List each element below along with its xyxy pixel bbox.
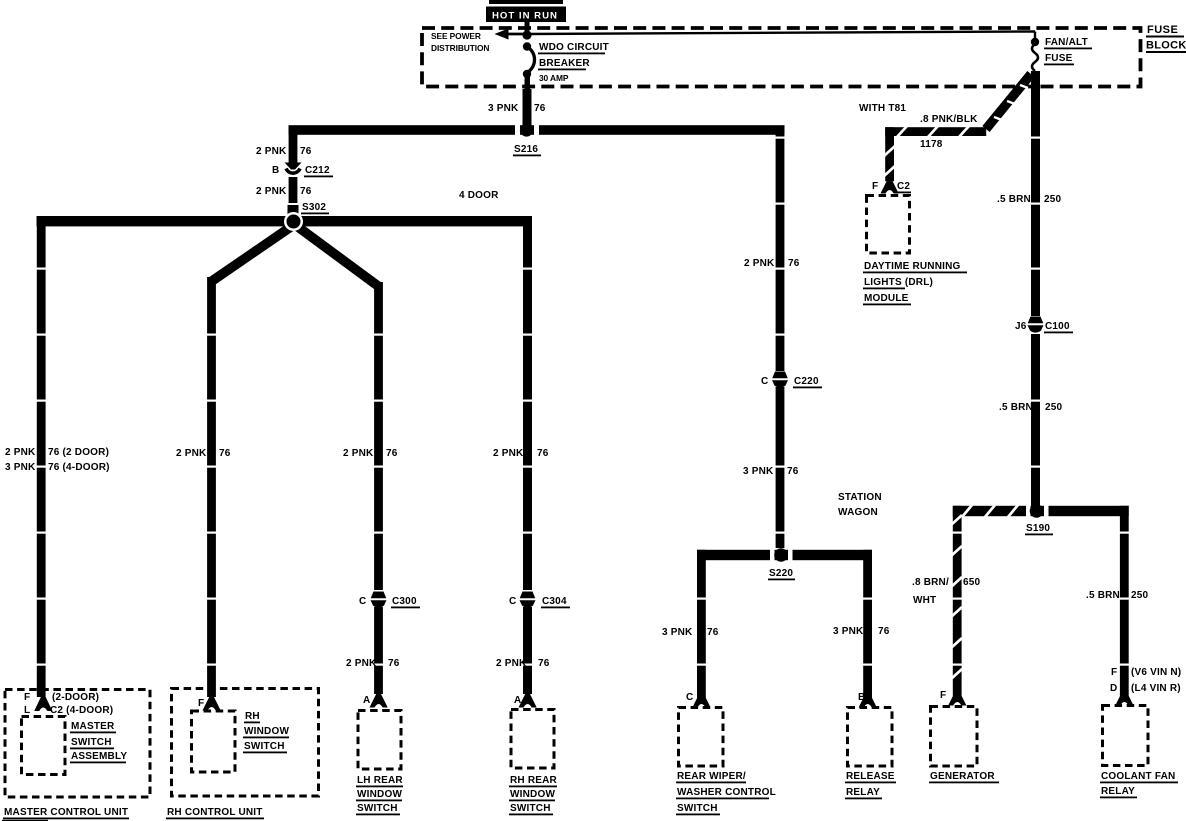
svg-text:.5 BRN: .5 BRN [1086, 590, 1120, 601]
wire vertical to rear wiper switch [697, 550, 706, 698]
svg-text:250: 250 [1131, 590, 1149, 601]
svg-text:REAR WIPER/: REAR WIPER/ [677, 771, 746, 782]
wire from breaker down through fuse block edge [525, 77, 531, 89]
wire from bus down to C212 [289, 133, 298, 164]
wire hatched vertical to DRL connector [885, 127, 894, 181]
svg-text:3 PNK: 3 PNK [488, 103, 519, 114]
svg-text:ASSEMBLY: ASSEMBLY [71, 751, 127, 762]
svg-text:2 PNK: 2 PNK [343, 448, 374, 459]
svg-text:WASHER CONTROL: WASHER CONTROL [677, 787, 776, 798]
svg-text:F: F [198, 698, 204, 709]
wire stub from HOT IN RUN into fuse block [525, 22, 530, 34]
svg-text:C212: C212 [305, 165, 330, 176]
svg-text:MASTER CONTROL UNIT: MASTER CONTROL UNIT [4, 807, 128, 818]
svg-text:C220: C220 [794, 376, 819, 387]
svg-text:J6: J6 [1015, 321, 1027, 332]
pin connector into coolant fan relay [1115, 692, 1133, 706]
svg-text:76 (2 DOOR): 76 (2 DOOR) [48, 447, 109, 458]
wire vertical drop w1 (to master switch) [37, 216, 46, 697]
svg-text:LH REAR: LH REAR [357, 775, 403, 786]
RH REAR WINDOW SWITCH dashed box [511, 710, 554, 769]
wire thick from FAN/ALT fuse down to S190 [1031, 71, 1040, 316]
svg-text:WINDOW: WINDOW [510, 789, 555, 800]
connector C300 symbol on w3 [371, 592, 387, 599]
svg-text:SWITCH: SWITCH [71, 737, 112, 748]
svg-text:2 PNK: 2 PNK [5, 447, 36, 458]
svg-text:2 PNK: 2 PNK [493, 448, 524, 459]
connector C304 symbol on w4 [520, 592, 536, 599]
svg-text:2 PNK: 2 PNK [256, 146, 287, 157]
svg-text:C300: C300 [392, 596, 417, 607]
wire vertical .5 BRN to coolant fan relay [1120, 506, 1129, 696]
RH WINDOW SWITCH inner dashed box [192, 711, 236, 772]
RH CONTROL UNIT outer dashed box [172, 689, 319, 797]
svg-text:76: 76 [386, 448, 398, 459]
svg-text:3 PNK: 3 PNK [5, 462, 36, 473]
svg-text:RELEASE: RELEASE [846, 771, 895, 782]
svg-text:A: A [514, 695, 521, 706]
splice S216 [520, 123, 533, 136]
svg-text:GENERATOR: GENERATOR [930, 771, 995, 782]
svg-text:WINDOW: WINDOW [357, 789, 402, 800]
svg-text:2 PNK: 2 PNK [496, 658, 527, 669]
svg-text:SWITCH: SWITCH [357, 803, 398, 814]
circuit breaker CB (WDO) [522, 30, 531, 39]
svg-text:BLOCK: BLOCK [1146, 40, 1186, 52]
svg-text:76 (4-DOOR): 76 (4-DOOR) [48, 462, 110, 473]
svg-text:76: 76 [534, 103, 546, 114]
wire C212 to S302 [289, 177, 298, 203]
svg-text:1178: 1178 [920, 139, 943, 150]
gaps around S190 [1026, 505, 1031, 517]
S302 hub horizontal wire [37, 216, 533, 226]
svg-text:RELAY: RELAY [1101, 786, 1135, 797]
svg-text:SEE POWER: SEE POWER [431, 31, 481, 41]
wire hatched horizontal to DRL [885, 127, 986, 136]
svg-text:FAN/ALT: FAN/ALT [1045, 37, 1088, 48]
MASTER SWITCH ASSEMBLY inner dashed box [22, 717, 66, 775]
GENERATOR dashed box [931, 707, 978, 767]
svg-text:C: C [761, 376, 768, 387]
svg-text:250: 250 [1044, 194, 1062, 205]
svg-text:2 PNK: 2 PNK [176, 448, 207, 459]
svg-text:RH: RH [245, 711, 260, 722]
wire hatched vertical .8 BRN/WHT to generator [953, 506, 962, 696]
svg-text:4 DOOR: 4 DOOR [459, 190, 499, 201]
wire vertical to release relay [863, 550, 872, 698]
connector C220 symbol [772, 372, 788, 379]
svg-text:A: A [363, 695, 370, 706]
COOLANT FAN RELAY dashed box [1103, 706, 1149, 766]
svg-text:(V6 VIN N): (V6 VIN N) [1131, 667, 1181, 678]
DRL MODULE dashed box [867, 196, 910, 254]
wire diagonal S302 to w2 [212, 224, 295, 281]
RELEASE RELAY dashed box [848, 708, 893, 767]
svg-text:76: 76 [537, 448, 549, 459]
wire 3 PNK 76 to bus [523, 89, 532, 126]
svg-text:WITH T81: WITH T81 [859, 103, 906, 114]
wire hatched diagonal .8 PNK/BLK [986, 74, 1031, 129]
pin connector into RH rear window switch [519, 694, 537, 708]
svg-text:F: F [940, 690, 946, 701]
pin connector into RH window switch [203, 697, 221, 711]
svg-text:C: C [509, 596, 516, 607]
svg-text:STATION: STATION [838, 492, 882, 503]
splice S302 isolation ring and dot [284, 212, 303, 231]
svg-text:FUSE: FUSE [1147, 24, 1178, 36]
HOT IN RUN box [486, 7, 566, 23]
svg-text:3 PNK: 3 PNK [833, 626, 864, 637]
svg-text:F: F [1111, 667, 1117, 678]
svg-text:WDO CIRCUIT: WDO CIRCUIT [539, 42, 609, 53]
black bar above HOT IN RUN (cut off) [489, 0, 563, 4]
gaps around S216 [515, 124, 520, 136]
pin connector into generator [948, 692, 966, 706]
svg-text:.8 BRN/: .8 BRN/ [912, 577, 949, 588]
svg-text:C304: C304 [542, 596, 567, 607]
svg-text:L: L [24, 705, 30, 716]
connector C212 symbol [285, 163, 302, 170]
svg-text:76: 76 [878, 626, 890, 637]
svg-text:FUSE: FUSE [1045, 53, 1073, 64]
svg-text:B: B [272, 165, 279, 176]
svg-text:.5 BRN: .5 BRN [997, 194, 1031, 205]
svg-text:(L4 VIN R): (L4 VIN R) [1131, 683, 1181, 694]
pin connector into LH rear window switch [370, 694, 388, 708]
svg-text:76: 76 [787, 466, 799, 477]
svg-text:650: 650 [963, 577, 981, 588]
S220 hub horizontal wire [697, 550, 872, 560]
svg-text:(2-DOOR): (2-DOOR) [52, 692, 99, 703]
svg-text:C2: C2 [897, 181, 910, 192]
svg-text:S216: S216 [514, 144, 538, 155]
svg-text:30 AMP: 30 AMP [539, 73, 569, 83]
svg-text:76: 76 [538, 658, 550, 669]
splice S220 [774, 548, 788, 562]
svg-text:DAYTIME RUNNING: DAYTIME RUNNING [864, 261, 961, 272]
svg-text:B: B [858, 692, 865, 703]
svg-text:.5 BRN: .5 BRN [999, 402, 1033, 413]
svg-text:76: 76 [300, 146, 312, 157]
LH REAR WINDOW SWITCH dashed box [358, 711, 401, 770]
wire thin line to FAN/ALT fuse [527, 32, 1035, 35]
splice S190 hub [953, 506, 1032, 516]
svg-text:S190: S190 [1026, 523, 1050, 534]
bus wire horizontal S216 bus [289, 125, 785, 135]
svg-text:MASTER: MASTER [71, 721, 115, 732]
see-power arrow [495, 29, 509, 40]
svg-text:3 PNK: 3 PNK [662, 627, 693, 638]
svg-text:C100: C100 [1045, 321, 1070, 332]
wire right drop from bus to C220 [776, 130, 785, 371]
svg-text:C: C [686, 692, 693, 703]
svg-text:SWITCH: SWITCH [244, 741, 285, 752]
svg-text:2 PNK: 2 PNK [744, 258, 775, 269]
svg-text:RH CONTROL UNIT: RH CONTROL UNIT [167, 807, 263, 818]
connector F/C2 into DRL module [881, 180, 899, 194]
wire C220 to S220 [776, 387, 785, 548]
svg-text:250: 250 [1045, 402, 1063, 413]
svg-text:RH REAR: RH REAR [510, 775, 558, 786]
FAN/ALT fuse symbol [1031, 38, 1039, 46]
svg-text:S220: S220 [769, 568, 793, 579]
wire diagonal S302 to w3 [294, 224, 378, 286]
svg-text:D: D [1110, 683, 1117, 694]
svg-text:76: 76 [707, 627, 719, 638]
pin connector into release relay [859, 694, 877, 708]
svg-text:76: 76 [788, 258, 800, 269]
gaps around S220 [770, 549, 775, 561]
svg-text:HOT IN RUN: HOT IN RUN [492, 11, 558, 22]
svg-text:WHT: WHT [913, 595, 936, 606]
svg-text:2 PNK: 2 PNK [346, 658, 377, 669]
pin connector into rear wiper switch [692, 694, 710, 708]
svg-text:76: 76 [219, 448, 231, 459]
svg-text:S302: S302 [302, 202, 326, 213]
MASTER CONTROL UNIT outer dashed box [5, 690, 150, 798]
svg-text:F: F [24, 692, 30, 703]
svg-text:MODULE: MODULE [864, 293, 909, 304]
svg-text:SWITCH: SWITCH [510, 803, 551, 814]
REAR WIPER WASHER SWITCH dashed box [679, 708, 724, 767]
svg-text:2 PNK: 2 PNK [256, 186, 287, 197]
wire vertical drop w4 (to RH rear window switch) [523, 216, 532, 590]
wire vertical w2 (to RH window switch) [207, 277, 216, 697]
svg-text:C2 (4-DOOR): C2 (4-DOOR) [50, 705, 113, 716]
wire vertical w3 (to LH rear window switch) [374, 282, 383, 590]
svg-text:RELAY: RELAY [846, 787, 880, 798]
svg-text:LIGHTS (DRL): LIGHTS (DRL) [864, 277, 933, 288]
svg-text:WINDOW: WINDOW [244, 726, 289, 737]
fuse block dashed box [422, 28, 1141, 87]
svg-text:DISTRIBUTION: DISTRIBUTION [431, 43, 489, 53]
svg-text:COOLANT FAN: COOLANT FAN [1101, 771, 1175, 782]
svg-text:WAGON: WAGON [838, 507, 878, 518]
svg-text:BREAKER: BREAKER [539, 58, 590, 69]
pin connector into master switch [34, 697, 52, 711]
scan band gaps on wires [36, 137, 1130, 666]
svg-text:76: 76 [300, 186, 312, 197]
svg-text:F: F [872, 181, 878, 192]
svg-text:.8 PNK/BLK: .8 PNK/BLK [920, 114, 978, 125]
svg-text:SWITCH: SWITCH [677, 803, 718, 814]
svg-text:C: C [359, 596, 366, 607]
svg-text:76: 76 [388, 658, 400, 669]
svg-text:3 PNK: 3 PNK [743, 466, 774, 477]
connector C100 symbol [1028, 317, 1044, 324]
